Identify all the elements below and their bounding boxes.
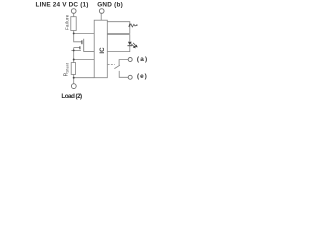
wire J1 down to transistor gate [74,33,82,41]
transistor Q1 channel and drain to IC [84,39,95,52]
junction node J3 [73,77,75,79]
switch arm [114,65,120,68]
LED D1 cathode bar [128,45,133,47]
op-amp IC box [94,20,107,77]
terminal b GND [99,9,104,14]
svg-text:Failure: Failure [64,14,69,30]
svg-text:(e): (e) [137,73,147,80]
switch upper contact to terminal a [119,60,128,66]
LED D1 arrow 2 [133,43,136,46]
wire GND terminal to IC top [100,13,102,20]
zigzag arrow tip [136,24,138,26]
transistor Q1 source lead [71,49,81,51]
svg-text:IC: IC [99,47,106,54]
wire J3 to IC bottom corner [74,77,95,79]
LED D1 triangle [128,42,132,46]
fuse F1 body [71,17,76,31]
box B1 loop [107,22,130,34]
terminal a [128,58,132,62]
LED D1 arrow 1 [131,44,134,47]
wire shunt bottom to node J3 [73,74,75,77]
fuse F1 central wire [73,17,75,34]
terminal 1 LINE [71,9,76,14]
junction node J2 [73,59,75,61]
junction node source [73,49,75,51]
wire body tie down to source node [73,48,75,51]
zigzag surge symbol [129,24,138,27]
wire node J2 to IC left edge [74,59,95,61]
terminal e [128,75,132,79]
transistor Q1 gate bar [81,40,83,44]
svg-text:Load (2): Load (2) [61,93,82,100]
switch lower contact to terminal e [119,71,128,77]
transistor Q1 body lead [74,47,80,49]
resistor Rshunt body [71,63,75,75]
terminal 2 Load [71,84,76,89]
wire source rail down to shunt [73,50,75,62]
junction node J1 [73,32,75,34]
transistor Q1 body bar [79,46,81,49]
svg-text:GND (b): GND (b) [97,2,123,9]
LED loop bottom return wire [107,46,130,52]
dashed relay actuator [108,64,115,66]
svg-text:LINE 24 V DC (1): LINE 24 V DC (1) [36,2,89,9]
wire node J1 to IC left edge [74,32,95,34]
svg-text:(a): (a) [137,56,147,63]
wire J3 down to load terminal [73,78,75,84]
wire terminal1 to fuse [73,13,75,16]
LED loop top wire [107,35,130,42]
